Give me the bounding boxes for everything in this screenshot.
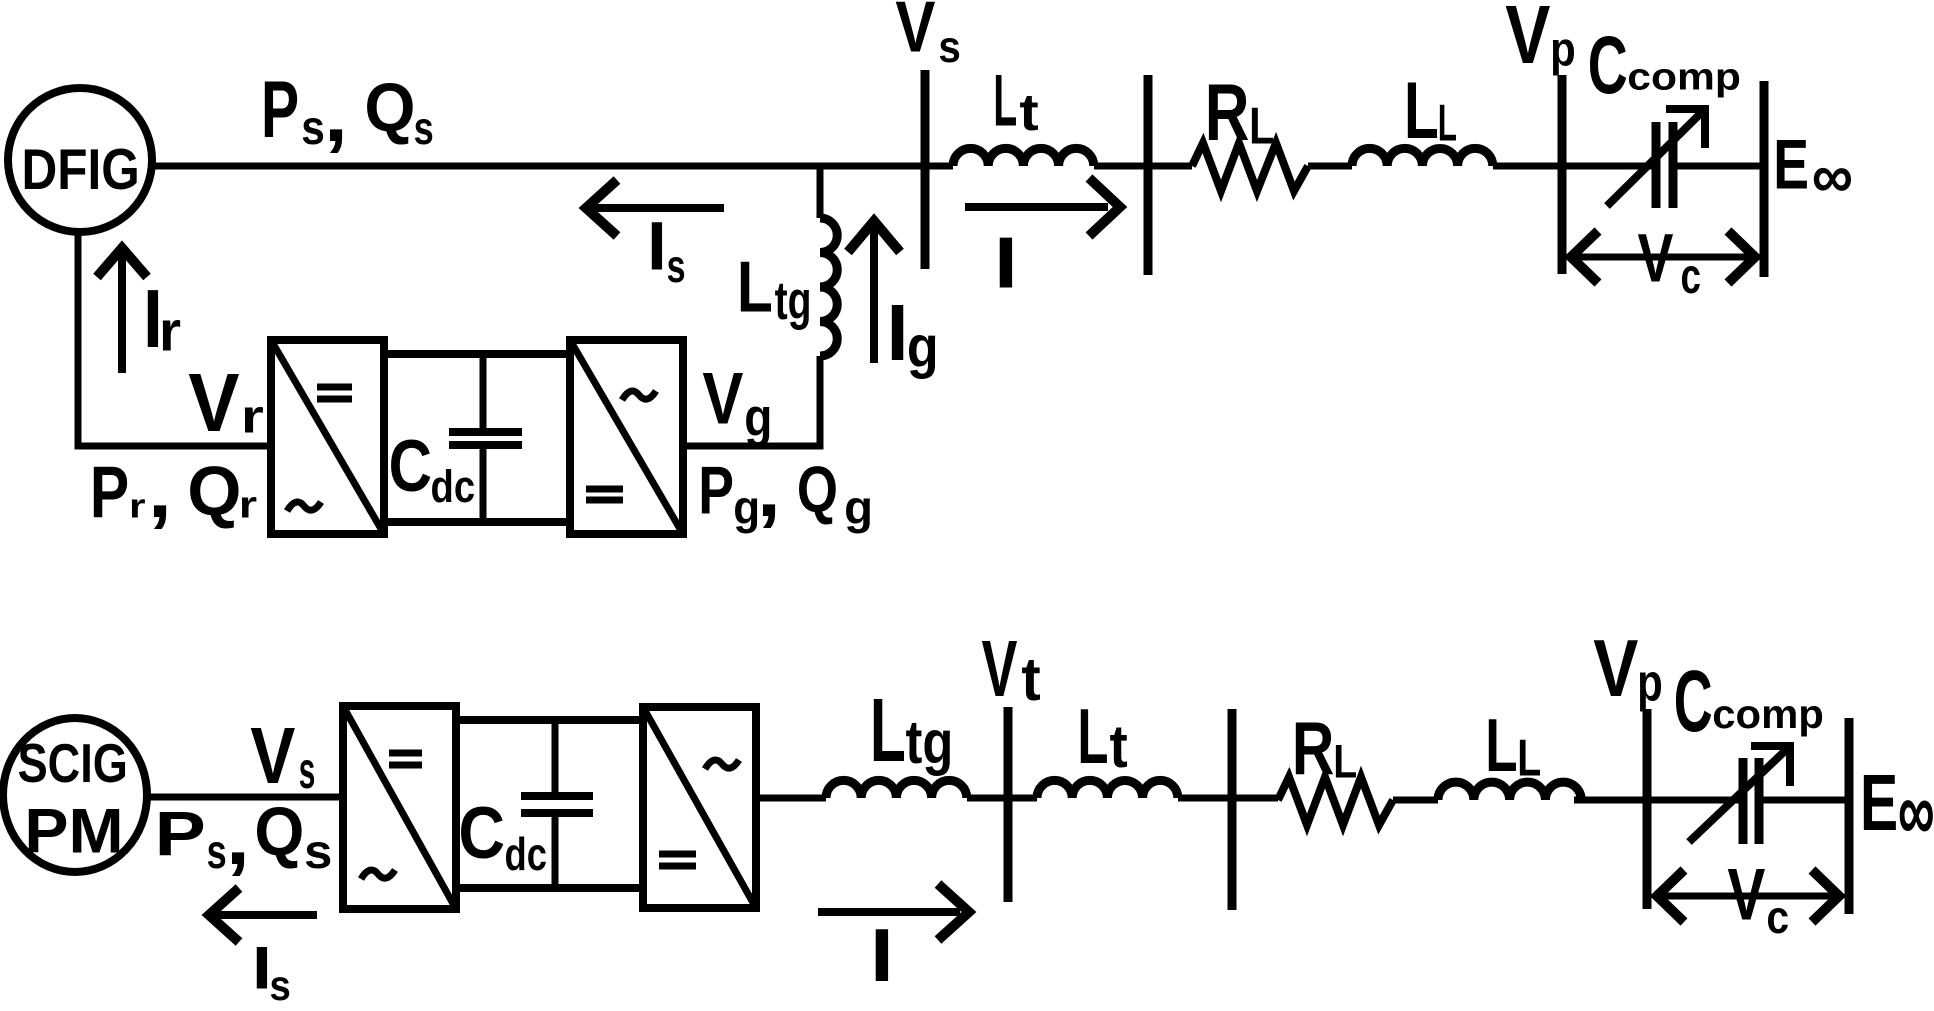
svg-text:P: P — [90, 453, 129, 535]
label Pg, Qg — [698, 447, 873, 535]
svg-text:L: L — [1517, 729, 1541, 786]
capacitor Ccomp (bottom) — [1689, 746, 1790, 844]
label Vs (bottom) — [250, 711, 315, 800]
arrow Vc (top) — [1571, 231, 1755, 283]
wire Ltg to converter (top) — [685, 356, 820, 446]
svg-text:t: t — [1110, 714, 1128, 781]
label Ccomp (top) — [1588, 19, 1741, 110]
svg-text:dc: dc — [431, 461, 476, 512]
wire LL to Ccomp (top) — [1493, 163, 1653, 170]
svg-text:L: L — [1438, 95, 1457, 153]
svg-text:r: r — [239, 484, 257, 526]
converter MSC box (bottom left) — [343, 706, 456, 909]
svg-text:t: t — [1019, 83, 1038, 142]
svg-text:s: s — [667, 240, 686, 292]
arrow Vc (bottom) — [1657, 870, 1839, 922]
wire Ltg to Lt (bottom) — [967, 795, 1037, 802]
wire RL to LL (top) — [1308, 163, 1352, 170]
label Vt — [982, 626, 1041, 714]
svg-text:P: P — [155, 798, 206, 869]
label LL (top) — [1404, 65, 1457, 155]
symbol ~ (RSC) — [287, 502, 321, 511]
label Vp (bottom) — [1593, 622, 1662, 713]
capacitor Ccomp (top) — [1607, 109, 1705, 208]
label Ps, Qs (bottom) — [155, 794, 333, 881]
svg-text:L: L — [1077, 692, 1108, 780]
node Vp bus (top) — [1558, 75, 1567, 274]
svg-text:t: t — [1021, 644, 1040, 713]
resistor RL (top) — [1192, 143, 1308, 191]
node E bus (bottom) — [1845, 718, 1854, 914]
svg-text:s: s — [304, 824, 332, 878]
label Ccomp (bottom) — [1674, 653, 1824, 750]
svg-text:tg: tg — [906, 707, 954, 776]
symbol = (bottom GSC) — [659, 854, 696, 866]
svg-text:c: c — [1681, 249, 1701, 305]
capacitor Cdc (bottom) — [521, 720, 593, 888]
wire Lt to RL (bottom) — [1178, 795, 1278, 802]
svg-text:C: C — [1588, 19, 1628, 110]
inductor LL (bottom) — [1438, 782, 1581, 800]
symbol = (MSC) — [389, 753, 422, 765]
svg-text:comp: comp — [1627, 56, 1741, 98]
svg-text:PM: PM — [24, 795, 123, 866]
inductor LL (top) — [1352, 148, 1493, 166]
svg-text:s: s — [270, 961, 291, 1009]
svg-text:I: I — [994, 222, 1018, 303]
arrow Ig — [848, 221, 900, 363]
node bus 2 (top) — [1144, 75, 1153, 275]
label Vc (top) — [1638, 220, 1701, 304]
arrow I (bottom) — [818, 884, 969, 940]
label LL (bottom) — [1485, 703, 1541, 787]
svg-text:DFIG: DFIG — [22, 139, 140, 202]
svg-text:s: s — [414, 102, 434, 154]
svg-text:comp: comp — [1712, 692, 1824, 737]
label Cdc (top) — [389, 427, 475, 512]
svg-text:p: p — [1550, 21, 1576, 76]
label Ltg (bottom) — [870, 680, 953, 781]
wire LL to Ccomp (bottom) — [1574, 797, 1740, 804]
svg-text:s: s — [207, 825, 227, 879]
label E infinity (top) — [1773, 126, 1853, 211]
generator SCIG/PM — [3, 718, 147, 872]
label Vs (top) — [895, 0, 960, 71]
wire dc link (bottom) — [456, 720, 643, 888]
svg-text:dc: dc — [505, 828, 547, 880]
wire SCIG to converter — [147, 794, 343, 801]
wire junction to Ltg (top) — [817, 163, 824, 218]
wire rotor DFIG to converter — [78, 232, 271, 446]
svg-text:V: V — [895, 0, 935, 68]
label RL (bottom) — [1292, 707, 1357, 791]
svg-text:r: r — [241, 391, 264, 443]
svg-text:,: , — [226, 795, 250, 882]
svg-text:I: I — [887, 288, 909, 377]
resistor RL (bottom) — [1278, 777, 1393, 825]
symbol ~ (MSC) — [361, 870, 395, 879]
svg-text:I: I — [647, 207, 667, 285]
svg-text:,: , — [324, 72, 348, 159]
svg-text:E: E — [1860, 757, 1898, 847]
label Ltg (top) — [737, 246, 812, 331]
label Pr, Qr — [90, 448, 257, 535]
svg-text:V: V — [188, 356, 239, 448]
svg-text:I: I — [870, 914, 894, 998]
symbol = (RSC) — [317, 387, 352, 399]
generator DFIG — [8, 88, 152, 232]
inductor Ltg (bottom) — [826, 780, 967, 798]
svg-text:L: L — [1485, 703, 1517, 787]
svg-text:R: R — [1205, 68, 1250, 158]
label Vp (top) — [1505, 0, 1575, 80]
node Vp bus (bottom) — [1643, 709, 1652, 909]
svg-text:L: L — [993, 61, 1017, 142]
inductor Lt (bottom) — [1037, 780, 1178, 798]
node Vt bus — [1004, 707, 1013, 902]
svg-text:Q: Q — [254, 794, 304, 870]
svg-text:∞: ∞ — [1898, 763, 1934, 859]
converter GSC box (bottom right) — [643, 707, 756, 908]
capacitor Cdc (top) — [449, 354, 522, 522]
arrow Is (bottom) — [209, 888, 317, 942]
svg-text:V: V — [702, 359, 743, 440]
wire GSC to Ltg (bottom) — [756, 795, 826, 802]
arrow I (top) — [965, 178, 1120, 236]
svg-text:P: P — [261, 64, 299, 154]
svg-text:V: V — [1505, 0, 1550, 80]
converter RSC box (top left) — [271, 340, 384, 534]
node bus 2 (bottom) — [1228, 709, 1237, 910]
label Lt (bottom) — [1077, 692, 1127, 781]
label Lt (top) — [993, 61, 1038, 142]
svg-text:L: L — [870, 680, 906, 781]
label Vr — [188, 356, 264, 448]
svg-text:L: L — [1333, 736, 1357, 788]
arrow Is (top) — [586, 180, 724, 236]
arrow Ir — [97, 248, 147, 373]
wire stator DFIG to Vs bus — [151, 163, 953, 170]
svg-text:R: R — [1292, 707, 1334, 791]
svg-text:g: g — [744, 388, 772, 448]
wire Ccomp to E bus (bottom) — [1762, 797, 1849, 804]
label Cdc (bottom) — [458, 792, 547, 880]
svg-text:L: L — [1404, 65, 1439, 155]
svg-text:tg: tg — [775, 270, 812, 331]
label Is (bottom) — [252, 935, 291, 1010]
svg-text:Q: Q — [797, 452, 838, 526]
svg-text:SCIG: SCIG — [18, 733, 128, 794]
svg-text:Q: Q — [187, 452, 241, 530]
symbol ~ (bottom GSC) — [705, 760, 739, 769]
svg-text:Q: Q — [364, 70, 415, 147]
wire dc link (top) — [384, 354, 570, 522]
symbol ~ (GSC) — [622, 391, 656, 400]
wire Lt to bus2 (top) — [1094, 163, 1192, 170]
symbol = (GSC) — [586, 489, 623, 500]
svg-text:s: s — [938, 22, 960, 71]
svg-text:c: c — [1766, 892, 1789, 944]
svg-text:s: s — [299, 741, 316, 799]
label Vc (bottom) — [1727, 854, 1789, 944]
label Ig — [887, 288, 939, 379]
wire RL to LL (bottom) — [1393, 797, 1438, 804]
node Vs bus (top) — [921, 70, 930, 269]
svg-text:P: P — [698, 453, 734, 528]
label Ps, Qs (top) — [261, 64, 434, 158]
svg-text:r: r — [129, 487, 146, 525]
svg-text:C: C — [1674, 653, 1713, 750]
node E bus (top) — [1760, 81, 1769, 277]
svg-text:E: E — [1773, 126, 1809, 205]
inductor Lt (top) — [953, 148, 1094, 166]
svg-text:L: L — [1249, 97, 1274, 154]
svg-text:s: s — [301, 101, 325, 155]
svg-text:g: g — [907, 314, 939, 379]
label Ir — [143, 273, 181, 365]
label Is (top) — [647, 207, 686, 293]
label E infinity (bottom) — [1860, 757, 1934, 858]
svg-text:V: V — [982, 626, 1018, 714]
svg-text:V: V — [1727, 854, 1765, 936]
svg-text:V: V — [250, 711, 295, 800]
svg-text:,: , — [148, 448, 172, 535]
svg-text:g: g — [844, 482, 873, 535]
svg-text:L: L — [737, 246, 773, 327]
svg-text:∞: ∞ — [1812, 140, 1853, 211]
svg-text:C: C — [458, 792, 505, 873]
converter GSC box (top right) — [570, 340, 683, 534]
svg-text:,: , — [757, 447, 781, 534]
svg-text:V: V — [1593, 622, 1638, 713]
svg-text:C: C — [389, 427, 432, 508]
svg-text:V: V — [1638, 220, 1674, 297]
label Vg — [702, 359, 772, 448]
wire Ccomp to E bus (top) — [1676, 163, 1764, 170]
inductor Ltg (top vertical) — [820, 218, 837, 356]
label RL (top) — [1205, 68, 1275, 158]
svg-text:p: p — [1637, 654, 1663, 713]
svg-text:r: r — [159, 300, 181, 363]
